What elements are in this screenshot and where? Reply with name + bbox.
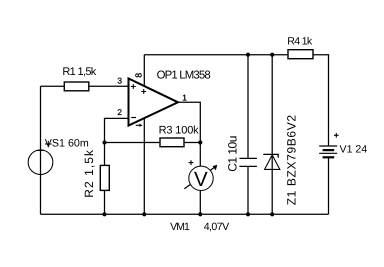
voltmeter VM1 circle: [189, 166, 213, 190]
battery V1 plate long 2: [319, 152, 337, 154]
capacitor C1 top plate: [239, 157, 257, 159]
node dot R3 left: [102, 140, 106, 144]
svg-text:2: 2: [117, 107, 122, 117]
source VS1 circle: [28, 150, 53, 175]
svg-text:VM1: VM1: [170, 221, 190, 233]
svg-text:4,07V: 4,07V: [204, 221, 230, 233]
op-amp V- arrow mark: [136, 124, 141, 126]
svg-text:8: 8: [134, 73, 144, 78]
zener Z1 triangle: [265, 155, 280, 170]
battery V1 plate short 1: [323, 149, 335, 151]
wire: C1 branch lower: [247, 166, 249, 214]
svg-text:V: V: [194, 168, 208, 191]
battery V1 plate short 2: [323, 156, 335, 158]
svg-text:C1 10u: C1 10u: [226, 136, 240, 172]
node dot ground V-: [142, 212, 146, 216]
wire: top-left horizontal through R1: [41, 85, 129, 87]
wire: op-amp V+ supply up to rail: [143, 55, 145, 86]
node dot ground Z1: [270, 212, 274, 216]
svg-text:OP1 LM358: OP1 LM358: [157, 69, 211, 81]
zener Z1 cathode bar: [263, 154, 278, 157]
svg-text:R4 1k: R4 1k: [287, 35, 313, 47]
voltmeter VM1 arrow tail: [184, 166, 216, 189]
node dot rail C1: [246, 53, 250, 57]
resistor R1: [64, 82, 89, 91]
op-amp plus supply mark: [141, 89, 146, 94]
resistor R4: [288, 50, 313, 59]
node dot ground R2: [102, 212, 106, 216]
svg-text:1: 1: [182, 92, 187, 102]
wire: op-amp output down through voltmeter: [178, 102, 200, 214]
node dot ground C1: [246, 212, 250, 216]
svg-text:V1 24: V1 24: [340, 144, 368, 156]
op-amp U1 triangle: [129, 79, 179, 126]
wire: bottom ground rail: [41, 213, 329, 215]
resistor R2: [100, 165, 109, 190]
capacitor C1 bottom plate: [239, 165, 257, 167]
svg-text:3: 3: [117, 75, 122, 85]
node dot ground VM1: [198, 212, 202, 216]
wire: rail from R4 to right edge: [313, 55, 329, 146]
wire: left branch VS1 vertical: [40, 86, 42, 214]
source VS1 plus mark over label: [45, 141, 52, 147]
wire: op-amp V- supply down: [143, 118, 145, 214]
op-amp plus input mark: [131, 84, 136, 89]
battery V1 plate long 1: [319, 145, 337, 147]
op-amp minus input mark: [131, 117, 136, 119]
voltmeter VM1 arrowhead: [213, 165, 218, 171]
wire: inverting input pin2 to node: [105, 118, 129, 214]
wire: C1 branch upper: [247, 55, 249, 159]
svg-text:R1 1,5k: R1 1,5k: [62, 66, 96, 78]
battery V1 plus mark: [334, 133, 339, 138]
wire: Z1 branch: [271, 55, 273, 215]
svg-text:VS1 60m: VS1 60m: [45, 138, 89, 150]
svg-text:R3 100k: R3 100k: [159, 124, 200, 136]
node dot R3 right / output: [198, 140, 202, 144]
wire: top supply rail: [144, 54, 288, 56]
voltmeter VM1 plus mark: [189, 160, 194, 165]
resistor R3: [160, 138, 184, 147]
node dot rail Z1: [270, 53, 274, 57]
wire: right edge lower battery to rail: [328, 157, 330, 214]
svg-text:R2 1,5k: R2 1,5k: [82, 149, 96, 198]
svg-text:Z1 BZX79B6V2: Z1 BZX79B6V2: [285, 114, 299, 205]
source VS1 plus tick on terminal: [37, 149, 43, 151]
wire: feedback R3 horizontal: [105, 142, 201, 144]
